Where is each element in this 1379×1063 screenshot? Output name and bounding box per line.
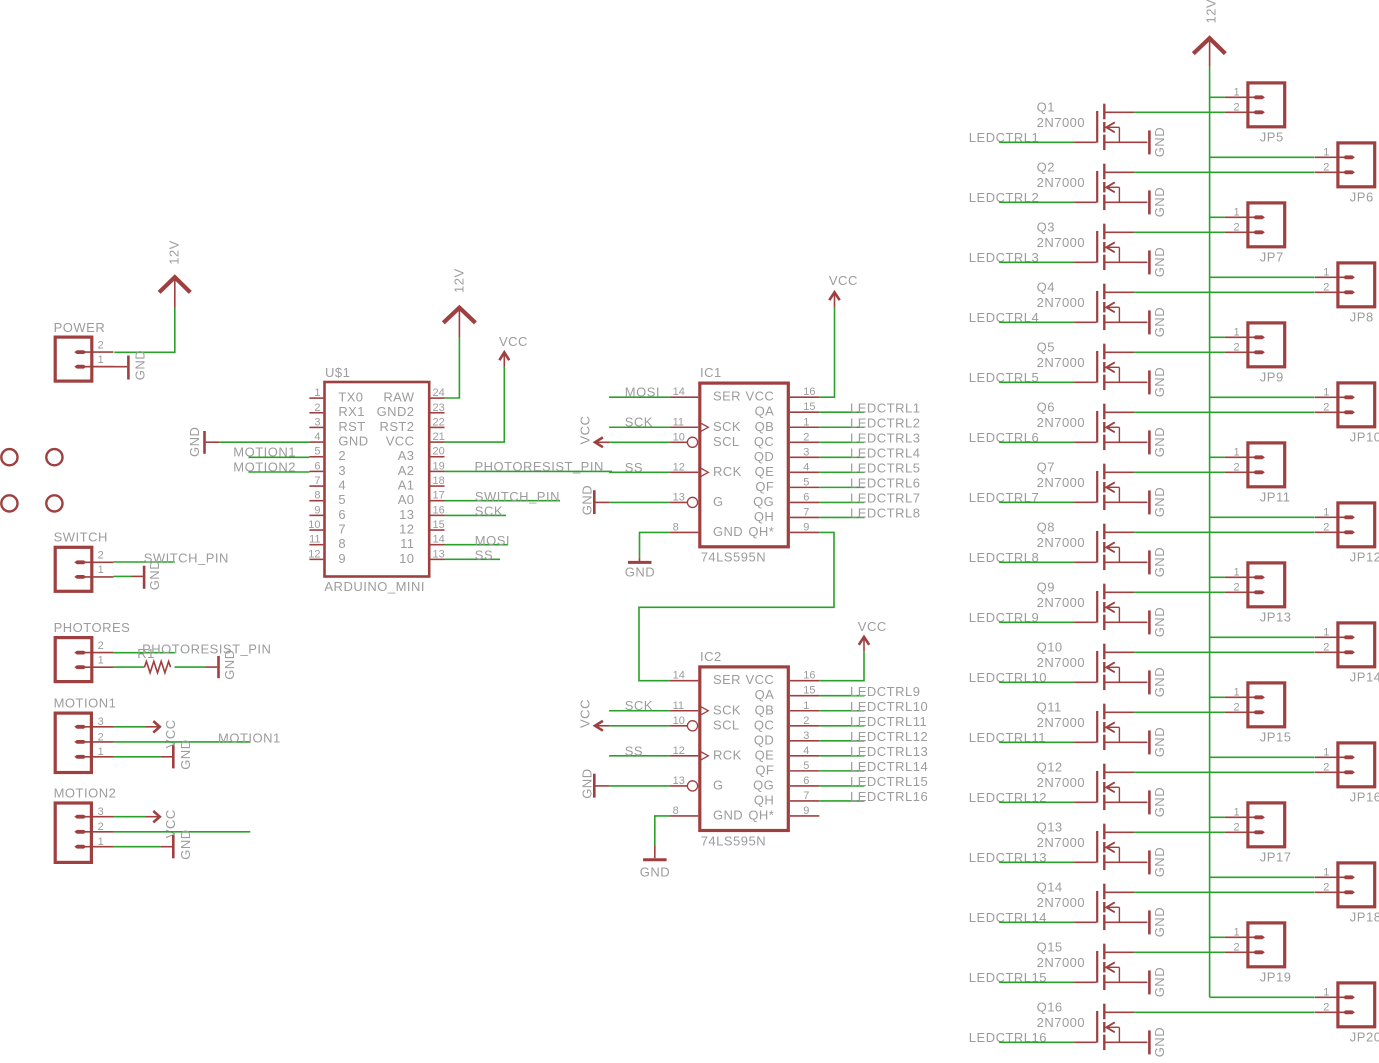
wire net LEDCTRL13 from IC2 QE <box>819 755 864 757</box>
wire VCC net to IC1 pin 10 <box>609 441 670 443</box>
wire net SWITCH_PIN from U$1 pin 17 <box>445 500 561 502</box>
wire VCC net from U$1 pin 21 <box>445 367 505 443</box>
svg-text:2: 2 <box>1234 582 1240 594</box>
wire Q4 drain to JP8 pin 2 <box>1134 291 1314 293</box>
IC1 pin 12 RCK stub with clock mark <box>670 471 698 473</box>
svg-text:GND: GND <box>713 807 743 822</box>
connector POWER <box>55 337 113 381</box>
svg-text:A2: A2 <box>398 463 415 478</box>
svg-text:Q8: Q8 <box>1037 519 1055 534</box>
wire 12V rail to JP12 pin 1 <box>1210 516 1315 518</box>
svg-text:QE: QE <box>755 464 775 479</box>
connector JP17 <box>1225 803 1285 847</box>
VCC supply arrow (left) at IC1 pin 10 <box>595 441 609 443</box>
svg-text:2: 2 <box>1323 1002 1329 1014</box>
svg-text:2N7000: 2N7000 <box>1037 175 1086 190</box>
wire net SS to IC2 pin 12 <box>609 755 670 757</box>
svg-text:LEDCTRL14: LEDCTRL14 <box>850 759 928 774</box>
ground GND bar at IC1 pin 13 <box>593 490 596 514</box>
svg-text:13: 13 <box>399 507 414 522</box>
connector JP14 <box>1315 623 1375 667</box>
svg-text:23: 23 <box>433 402 445 414</box>
connector JP15 <box>1225 683 1285 727</box>
wire net LEDCTRL7 to Q7 gate <box>999 501 1074 503</box>
ground GND at Q6 source <box>1149 427 1167 457</box>
transistor Q15 2N7000 <box>1097 944 1147 990</box>
wire 12V rail to JP9 pin 1 <box>1210 336 1225 338</box>
wire net LEDCTRL10 from IC2 QB <box>819 710 864 712</box>
transistor Q5 2N7000 <box>1097 344 1147 390</box>
ground GND bar at SWITCH <box>143 566 146 589</box>
svg-text:G: G <box>713 777 724 792</box>
wire Q14 drain to JP18 pin 2 <box>1134 891 1314 893</box>
transistor Q6 2N7000 <box>1097 404 1147 450</box>
IC1 pin 5 QF stub <box>790 486 819 488</box>
svg-text:VCC: VCC <box>858 619 887 634</box>
wire net LEDCTRL4 from IC1 QD <box>819 456 864 458</box>
svg-text:POWER: POWER <box>54 320 106 335</box>
svg-text:10: 10 <box>308 519 320 531</box>
GND supply pin at IC1 pin 13 <box>596 501 610 503</box>
svg-text:QA: QA <box>755 687 775 702</box>
svg-text:2N7000: 2N7000 <box>1037 595 1086 610</box>
svg-text:12: 12 <box>673 745 685 757</box>
IC1 pin 16 VCC stub <box>790 396 819 398</box>
U$1 pin 3 stub <box>309 426 323 428</box>
svg-text:2N7000: 2N7000 <box>1037 655 1086 670</box>
IC2 pin 9 QH* stub <box>790 815 819 817</box>
svg-text:11: 11 <box>400 536 414 551</box>
svg-text:QB: QB <box>755 702 775 717</box>
svg-text:19: 19 <box>433 460 445 472</box>
connector JP19 <box>1225 923 1285 967</box>
U$1 pin 13 stub <box>430 558 444 560</box>
svg-text:4: 4 <box>803 745 809 757</box>
svg-text:LEDCTRL12: LEDCTRL12 <box>850 729 928 744</box>
U$1 pin 8 stub <box>309 500 323 502</box>
supply symbol 12V arrow at rail <box>1193 38 1225 53</box>
12V supply stem at U$1 <box>458 309 460 338</box>
svg-text:22: 22 <box>433 416 445 428</box>
Q13 gate pin stub <box>1074 861 1096 863</box>
Q9 gate pin stub <box>1074 621 1096 623</box>
svg-text:PHOTORES: PHOTORES <box>54 620 131 635</box>
ground GND at Q4 source <box>1149 307 1167 337</box>
wire net LEDCTRL8 from IC1 QH <box>819 516 864 518</box>
ground GND at Q2 source <box>1149 187 1167 217</box>
wire PHOTORES pin 1 to R1 <box>113 666 144 668</box>
svg-text:2N7000: 2N7000 <box>1037 475 1086 490</box>
wire GND net to IC2 pin 13 <box>610 785 670 787</box>
svg-text:8: 8 <box>338 536 346 551</box>
svg-text:QE: QE <box>755 747 775 762</box>
Q10 gate pin stub <box>1074 681 1096 683</box>
svg-text:QC: QC <box>754 434 774 449</box>
svg-text:RST: RST <box>338 419 365 434</box>
U$1 pin 10 stub <box>309 529 323 531</box>
ground GND at Q11 source <box>1149 727 1167 757</box>
svg-text:QA: QA <box>755 404 775 419</box>
supply symbol 12V arrow at U$1 <box>443 308 475 323</box>
svg-text:LEDCTRL7: LEDCTRL7 <box>850 491 920 506</box>
svg-text:LEDCTRL9: LEDCTRL9 <box>850 684 920 699</box>
connector JP5 <box>1225 83 1285 127</box>
VCC supply arrow at U$1 <box>503 353 505 367</box>
svg-text:13: 13 <box>673 491 685 503</box>
U$1 pin 2 stub <box>309 412 323 414</box>
svg-text:24: 24 <box>433 387 445 399</box>
IC2 pin 12 RCK stub with clock mark <box>670 755 698 757</box>
wire net LEDCTRL5 from IC1 QE <box>819 471 864 473</box>
svg-text:VCC: VCC <box>163 809 178 838</box>
svg-text:2: 2 <box>1234 102 1240 114</box>
wire Q7 drain to JP11 pin 2 <box>1134 471 1225 473</box>
IC2 pin 4 QE stub <box>790 755 819 757</box>
wire 12V rail to JP18 pin 1 <box>1210 876 1315 878</box>
wire 12V rail to JP8 pin 1 <box>1210 276 1315 278</box>
svg-text:SWITCH_PIN: SWITCH_PIN <box>475 489 560 504</box>
svg-text:2: 2 <box>98 640 104 652</box>
svg-text:A3: A3 <box>398 448 415 463</box>
svg-text:Q2: Q2 <box>1037 159 1055 174</box>
connector JP11 <box>1225 443 1285 487</box>
wire net SCK to IC1 pin 11 <box>609 426 670 428</box>
svg-text:18: 18 <box>433 475 445 487</box>
svg-text:13: 13 <box>673 775 685 787</box>
12V supply pin stem <box>174 279 176 308</box>
svg-text:3: 3 <box>98 806 104 818</box>
svg-text:2N7000: 2N7000 <box>1037 835 1086 850</box>
wire net MOSI from U$1 pin 14 <box>445 544 509 546</box>
svg-text:1: 1 <box>98 746 104 758</box>
wire Q3 drain to JP7 pin 2 <box>1134 231 1225 233</box>
svg-text:74LS595N: 74LS595N <box>701 550 766 565</box>
connector JP10 <box>1315 383 1375 427</box>
wire net LEDCTRL15 from IC2 QG <box>819 785 864 787</box>
U$1 pin 9 stub <box>309 514 323 516</box>
svg-text:MOTION2: MOTION2 <box>54 785 117 800</box>
connector MOTION1 <box>55 713 114 772</box>
svg-text:3: 3 <box>98 716 104 728</box>
svg-text:2: 2 <box>98 731 104 743</box>
wire Q11 drain to JP15 pin 2 <box>1134 711 1225 713</box>
IC1 pin 11 SCK stub with clock mark <box>670 426 698 428</box>
svg-text:9: 9 <box>314 504 320 516</box>
U$1 pin 14 stub <box>430 544 444 546</box>
IC IC2 74LS595N body <box>700 667 789 831</box>
VCC supply arrow (right) at MOTION1 pin 3 <box>146 726 158 728</box>
wire net SCK from U$1 pin 16 <box>445 514 507 516</box>
U$1 pin 4 stub <box>309 441 323 443</box>
power supply symbol 12V (top-left) arrow <box>159 277 190 292</box>
wire net LEDCTRL14 from IC2 QF <box>819 770 864 772</box>
svg-text:2N7000: 2N7000 <box>1037 955 1086 970</box>
svg-text:VCC: VCC <box>163 719 178 748</box>
svg-text:1: 1 <box>1323 147 1329 159</box>
U$1 pin 18 stub <box>430 485 444 487</box>
svg-text:GND: GND <box>178 829 193 859</box>
U$1 pin 15 stub <box>430 529 444 531</box>
svg-text:11: 11 <box>673 700 684 712</box>
U$1 pin 11 stub <box>309 544 323 546</box>
U$1 pin 6 stub <box>309 470 323 472</box>
wire 12V rail to JP15 pin 1 <box>1210 696 1225 698</box>
svg-text:12V: 12V <box>167 240 182 265</box>
wire net LEDCTRL16 to Q16 gate <box>999 1041 1074 1043</box>
ground GND at Q9 source <box>1149 607 1167 637</box>
transistor Q11 2N7000 <box>1097 704 1147 750</box>
svg-text:2: 2 <box>803 715 809 727</box>
svg-text:LEDCTRL6: LEDCTRL6 <box>850 475 920 490</box>
svg-text:LEDCTRL3: LEDCTRL3 <box>850 430 920 445</box>
svg-text:SER: SER <box>713 389 741 404</box>
wire VCC net from IC2 pin 16 to arrow <box>819 651 864 681</box>
ground GND at Q15 source <box>1149 967 1167 997</box>
svg-text:4: 4 <box>314 431 320 443</box>
wire net LEDCTRL2 from IC1 QB <box>819 426 864 428</box>
svg-text:2: 2 <box>1234 942 1240 954</box>
wire GND net to IC1 pin 13 <box>610 501 670 503</box>
wire 12V vertical rail <box>1209 67 1211 998</box>
Q3 gate pin stub <box>1074 261 1096 263</box>
svg-text:Q10: Q10 <box>1037 639 1063 654</box>
IC1 pin 3 QD stub <box>790 456 819 458</box>
svg-text:JP17: JP17 <box>1260 849 1292 864</box>
wire SWITCH pin 1 to GND <box>113 575 131 577</box>
svg-text:4: 4 <box>338 477 346 492</box>
wire MOTION1 pin 3 to VCC <box>114 726 146 728</box>
svg-text:Q5: Q5 <box>1037 339 1055 354</box>
mounting hole H3 <box>1 495 17 511</box>
wire VCC net from IC1 pin 16 to arrow <box>819 307 834 397</box>
svg-text:VCC: VCC <box>829 273 858 288</box>
svg-text:12: 12 <box>399 521 414 536</box>
svg-text:1: 1 <box>1234 567 1240 579</box>
GND supply pin at MOTION1 <box>161 756 173 758</box>
svg-text:GND: GND <box>625 565 655 580</box>
svg-text:QH*: QH* <box>748 524 774 539</box>
svg-text:JP7: JP7 <box>1260 249 1284 264</box>
connector SWITCH <box>55 547 113 591</box>
transistor Q10 2N7000 <box>1097 644 1147 690</box>
GND supply pin at SWITCH <box>131 575 143 577</box>
wire net LEDCTRL8 to Q8 gate <box>999 561 1074 563</box>
ground GND bar at R1 <box>217 656 220 678</box>
IC2 pin 13 G stub with inversion bubble <box>670 785 687 787</box>
svg-text:2: 2 <box>1323 402 1329 414</box>
connector JP6 <box>1315 143 1375 187</box>
transistor Q7 2N7000 <box>1097 464 1147 510</box>
svg-text:Q7: Q7 <box>1037 459 1055 474</box>
svg-text:QH: QH <box>754 792 774 807</box>
wire 12V rail to JP14 pin 1 <box>1210 636 1315 638</box>
ground GND bar at MOTION1 <box>172 745 175 768</box>
wire net MOTION1 from pin 2 <box>114 741 250 743</box>
svg-text:2: 2 <box>1323 642 1329 654</box>
ground GND bar at MOTION2 <box>172 835 175 858</box>
svg-text:2: 2 <box>1323 882 1329 894</box>
ground GND at Q8 source <box>1149 547 1167 577</box>
svg-text:SCK: SCK <box>625 414 653 429</box>
svg-text:2: 2 <box>1323 162 1329 174</box>
svg-text:JP8: JP8 <box>1350 309 1374 324</box>
GND supply pin at R1 <box>205 666 217 668</box>
IC2 pin 1 QB stub <box>790 710 819 712</box>
wire 12V rail to JP16 pin 1 <box>1210 756 1315 758</box>
svg-text:VCC: VCC <box>499 334 528 349</box>
VCC supply arrow at IC2 <box>863 637 865 651</box>
svg-text:1: 1 <box>1234 327 1240 339</box>
svg-text:6: 6 <box>314 460 320 472</box>
svg-text:12V: 12V <box>451 268 466 293</box>
svg-text:JP5: JP5 <box>1260 129 1284 144</box>
wire net LEDCTRL12 to Q12 gate <box>999 801 1074 803</box>
wire net LEDCTRL10 to Q10 gate <box>999 681 1074 683</box>
connector JP7 <box>1225 203 1285 247</box>
svg-text:LEDCTRL10: LEDCTRL10 <box>850 699 928 714</box>
wire Q12 drain to JP16 pin 2 <box>1134 771 1314 773</box>
GND supply pin at U$1 <box>206 441 220 443</box>
ground GND bar below IC2 <box>643 858 667 861</box>
wire Q15 drain to JP19 pin 2 <box>1134 951 1225 953</box>
svg-text:2: 2 <box>1323 762 1329 774</box>
svg-text:Q6: Q6 <box>1037 399 1055 414</box>
wire net LEDCTRL6 from IC1 QF <box>819 486 864 488</box>
svg-text:MOTION1: MOTION1 <box>218 731 281 746</box>
wire 12V rail to JP10 pin 1 <box>1210 396 1315 398</box>
GND supply stem at IC1 <box>639 558 641 561</box>
svg-text:SCK: SCK <box>625 698 653 713</box>
svg-text:GND: GND <box>580 768 595 798</box>
wire Q5 drain to JP9 pin 2 <box>1134 351 1225 353</box>
svg-text:LEDCTRL15: LEDCTRL15 <box>850 774 928 789</box>
svg-text:A1: A1 <box>398 477 415 492</box>
wire net LEDCTRL1 to Q1 gate <box>999 141 1074 143</box>
wire net SCK to IC2 pin 11 <box>609 710 670 712</box>
IC1 pin 9 QH* stub <box>790 531 819 533</box>
svg-text:2N7000: 2N7000 <box>1037 1015 1086 1030</box>
svg-text:2N7000: 2N7000 <box>1037 535 1086 550</box>
wire 12V net from U$1 pin 24 to arrow <box>445 338 460 398</box>
wire 12V rail to JP11 pin 1 <box>1210 456 1225 458</box>
mounting hole H2 <box>46 449 62 465</box>
Q4 gate pin stub <box>1074 321 1096 323</box>
transistor Q2 2N7000 <box>1097 164 1147 210</box>
wire Q1 drain to JP5 pin 2 <box>1134 111 1225 113</box>
svg-text:QH*: QH* <box>748 807 774 822</box>
svg-text:A0: A0 <box>398 492 415 507</box>
wire net from IC1 pin 9 QH* to IC2 pin 14 SER <box>639 532 834 680</box>
svg-text:8: 8 <box>673 521 679 533</box>
svg-text:14: 14 <box>673 386 685 398</box>
wire 12V rail to JP19 pin 1 <box>1210 936 1225 938</box>
svg-text:6: 6 <box>803 491 809 503</box>
ground GND bar at U$1 pin 4 <box>203 431 206 454</box>
svg-text:2: 2 <box>1234 822 1240 834</box>
svg-text:2N7000: 2N7000 <box>1037 295 1086 310</box>
svg-text:VCC: VCC <box>577 699 592 728</box>
svg-text:17: 17 <box>433 490 445 502</box>
wire VCC net to IC2 pin 10 <box>609 725 670 727</box>
svg-text:16: 16 <box>803 670 815 682</box>
svg-text:1: 1 <box>1323 867 1329 879</box>
svg-text:1: 1 <box>803 416 809 428</box>
svg-text:2: 2 <box>314 402 320 414</box>
svg-text:RCK: RCK <box>713 747 742 762</box>
wire R1 to GND <box>175 666 206 668</box>
wire 12V rail to JP7 pin 1 <box>1210 216 1225 218</box>
svg-text:3: 3 <box>803 730 809 742</box>
mounting hole H4 <box>46 495 62 511</box>
svg-text:15: 15 <box>433 519 445 531</box>
svg-text:16: 16 <box>803 386 815 398</box>
svg-text:3: 3 <box>338 463 346 478</box>
svg-text:6: 6 <box>803 775 809 787</box>
wire 12V rail to JP17 pin 1 <box>1210 816 1225 818</box>
svg-text:JP9: JP9 <box>1260 369 1284 384</box>
transistor Q13 2N7000 <box>1097 824 1147 870</box>
IC2 pin 7 QH stub <box>790 800 819 802</box>
transistor Q16 2N7000 <box>1097 1004 1147 1050</box>
svg-text:VCC: VCC <box>386 433 415 448</box>
svg-text:8: 8 <box>673 805 679 817</box>
transistor Q4 2N7000 <box>1097 284 1147 330</box>
svg-text:13: 13 <box>433 548 445 560</box>
svg-text:VCC: VCC <box>746 672 775 687</box>
svg-text:14: 14 <box>673 670 685 682</box>
svg-text:9: 9 <box>803 805 809 817</box>
svg-text:2N7000: 2N7000 <box>1037 355 1086 370</box>
svg-text:1: 1 <box>1234 927 1240 939</box>
svg-text:2: 2 <box>1323 522 1329 534</box>
12V supply stem at rail <box>1209 40 1211 67</box>
wire 12V net from POWER pin 2 to arrow <box>114 308 175 353</box>
U$1 pin 16 stub <box>430 514 444 516</box>
ground GND at Q10 source <box>1149 667 1167 697</box>
connector JP13 <box>1225 563 1285 607</box>
Q6 gate pin stub <box>1074 441 1096 443</box>
U$1 pin 23 stub <box>430 412 444 414</box>
ground GND at Q12 source <box>1149 787 1167 817</box>
svg-text:3: 3 <box>314 416 320 428</box>
VCC supply arrow (left) at IC2 pin 10 <box>595 725 609 727</box>
wire net LEDCTRL16 from IC2 QH <box>819 800 864 802</box>
transistor Q9 2N7000 <box>1097 584 1147 630</box>
svg-text:JP12: JP12 <box>1350 549 1379 564</box>
svg-text:RST2: RST2 <box>380 419 415 434</box>
svg-text:7: 7 <box>338 521 346 536</box>
Q7 gate pin stub <box>1074 501 1096 503</box>
connector JP16 <box>1315 743 1375 787</box>
svg-text:SCK: SCK <box>713 702 741 717</box>
svg-text:14: 14 <box>433 534 445 546</box>
wire Q10 drain to JP14 pin 2 <box>1134 651 1314 653</box>
svg-text:1: 1 <box>1323 267 1329 279</box>
svg-text:LEDCTRL16: LEDCTRL16 <box>850 789 928 804</box>
U$1 pin 5 stub <box>309 456 323 458</box>
IC2 pin 6 QG stub <box>790 785 819 787</box>
Q11 gate pin stub <box>1074 741 1096 743</box>
svg-text:SCL: SCL <box>713 717 740 732</box>
svg-text:JP15: JP15 <box>1260 729 1292 744</box>
svg-text:VCC: VCC <box>746 389 775 404</box>
wire Q13 drain to JP17 pin 2 <box>1134 831 1225 833</box>
svg-text:9: 9 <box>803 521 809 533</box>
svg-text:QG: QG <box>753 777 774 792</box>
svg-text:1: 1 <box>1234 807 1240 819</box>
svg-text:7: 7 <box>314 475 320 487</box>
ground GND bar below IC1 <box>628 561 652 564</box>
